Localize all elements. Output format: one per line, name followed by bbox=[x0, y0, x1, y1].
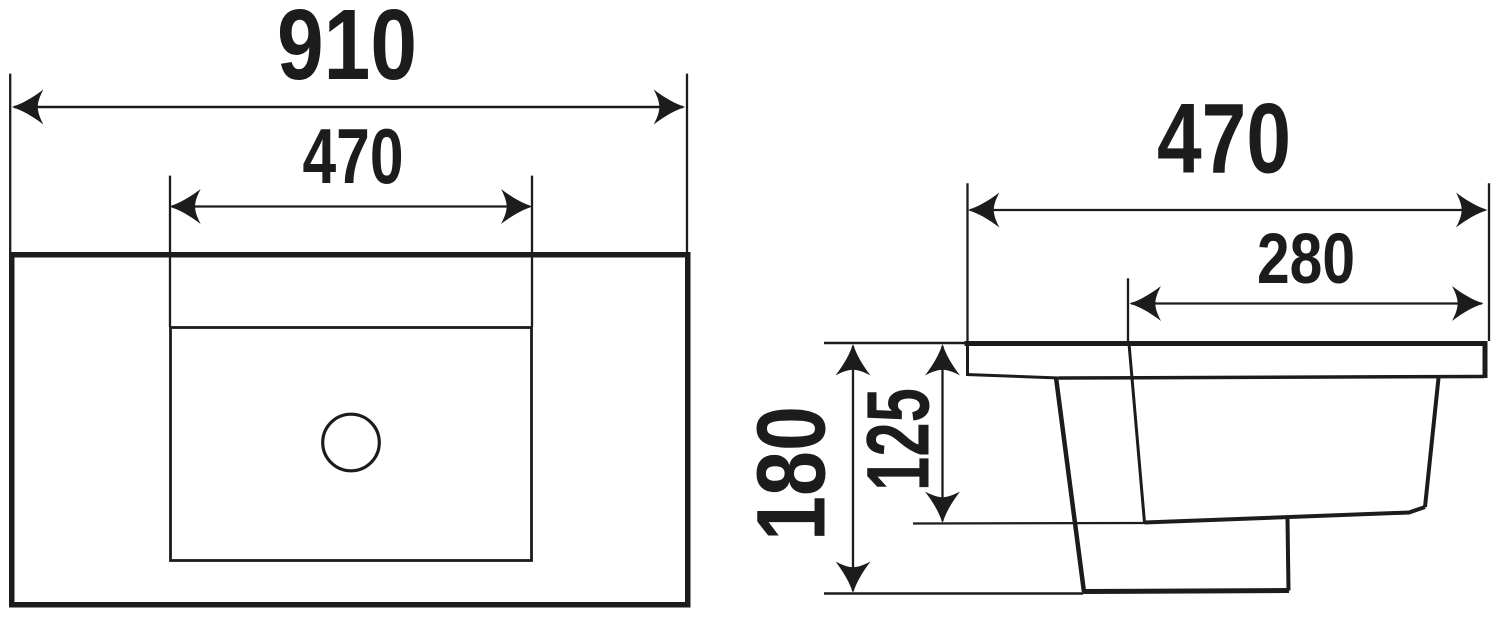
bowl inner back wall bbox=[1129, 344, 1145, 523]
arrow 910 right bbox=[654, 90, 686, 125]
inner rectangle (bowl, top view) bbox=[171, 328, 532, 561]
dimension line 910 bbox=[14, 106, 683, 109]
arrow 125 up bbox=[925, 344, 960, 376]
dimension line 470 side bbox=[970, 209, 1485, 211]
svg-text:280: 280 bbox=[1257, 219, 1355, 299]
arrow 125 down bbox=[925, 492, 960, 524]
slab top edge bbox=[965, 341, 1488, 346]
extension line left of 470 bbox=[169, 176, 171, 327]
slab left edge bbox=[966, 341, 969, 376]
dimension line 180 bbox=[852, 346, 854, 591]
arrow 470 left bbox=[169, 189, 201, 224]
extension line right of 470 bbox=[531, 176, 533, 327]
outer rectangle (basin rim, top view) bbox=[12, 255, 688, 605]
extension line left of 280 bbox=[1127, 278, 1129, 343]
arrow 180 up bbox=[836, 344, 871, 376]
extension line right of 910 bbox=[686, 74, 688, 252]
svg-text:910: 910 bbox=[277, 0, 417, 101]
floor extension line bbox=[824, 592, 1083, 595]
extension line right of 470 side bbox=[1488, 183, 1490, 341]
arrow 180 down bbox=[836, 562, 871, 594]
slab right edge bbox=[1483, 341, 1488, 378]
pedestal right edge bbox=[1288, 519, 1289, 591]
slab bottom edge right part bbox=[1059, 377, 1484, 379]
arrow 910 left bbox=[12, 90, 44, 125]
slab bottom edge left sloped part bbox=[966, 375, 1059, 379]
drain circle bbox=[323, 414, 380, 471]
arrow 470 side left bbox=[968, 193, 1000, 228]
arrow 470 right bbox=[501, 189, 533, 224]
svg-text:470: 470 bbox=[303, 114, 404, 200]
arrow 280 right bbox=[1452, 286, 1484, 321]
bowl bottom bbox=[1145, 507, 1426, 523]
bowl rear wall bbox=[1425, 378, 1439, 507]
extension line left of 470 side bbox=[966, 183, 968, 341]
extension line left of 910 bbox=[9, 74, 11, 252]
svg-text:180: 180 bbox=[737, 406, 846, 541]
dimension line 280 bbox=[1131, 302, 1482, 304]
dimension line 470 bbox=[172, 205, 530, 207]
arrow 280 left bbox=[1130, 286, 1162, 321]
svg-text:470: 470 bbox=[1157, 84, 1291, 195]
arrow 470 side right bbox=[1456, 193, 1488, 228]
extension line below 125 bbox=[913, 522, 1146, 525]
top extension line (slab level) bbox=[824, 342, 967, 345]
pedestal bottom bbox=[1083, 591, 1289, 592]
dimension line 125 bbox=[941, 346, 943, 521]
bowl front wall bbox=[1056, 378, 1084, 593]
svg-text:125: 125 bbox=[848, 388, 948, 491]
